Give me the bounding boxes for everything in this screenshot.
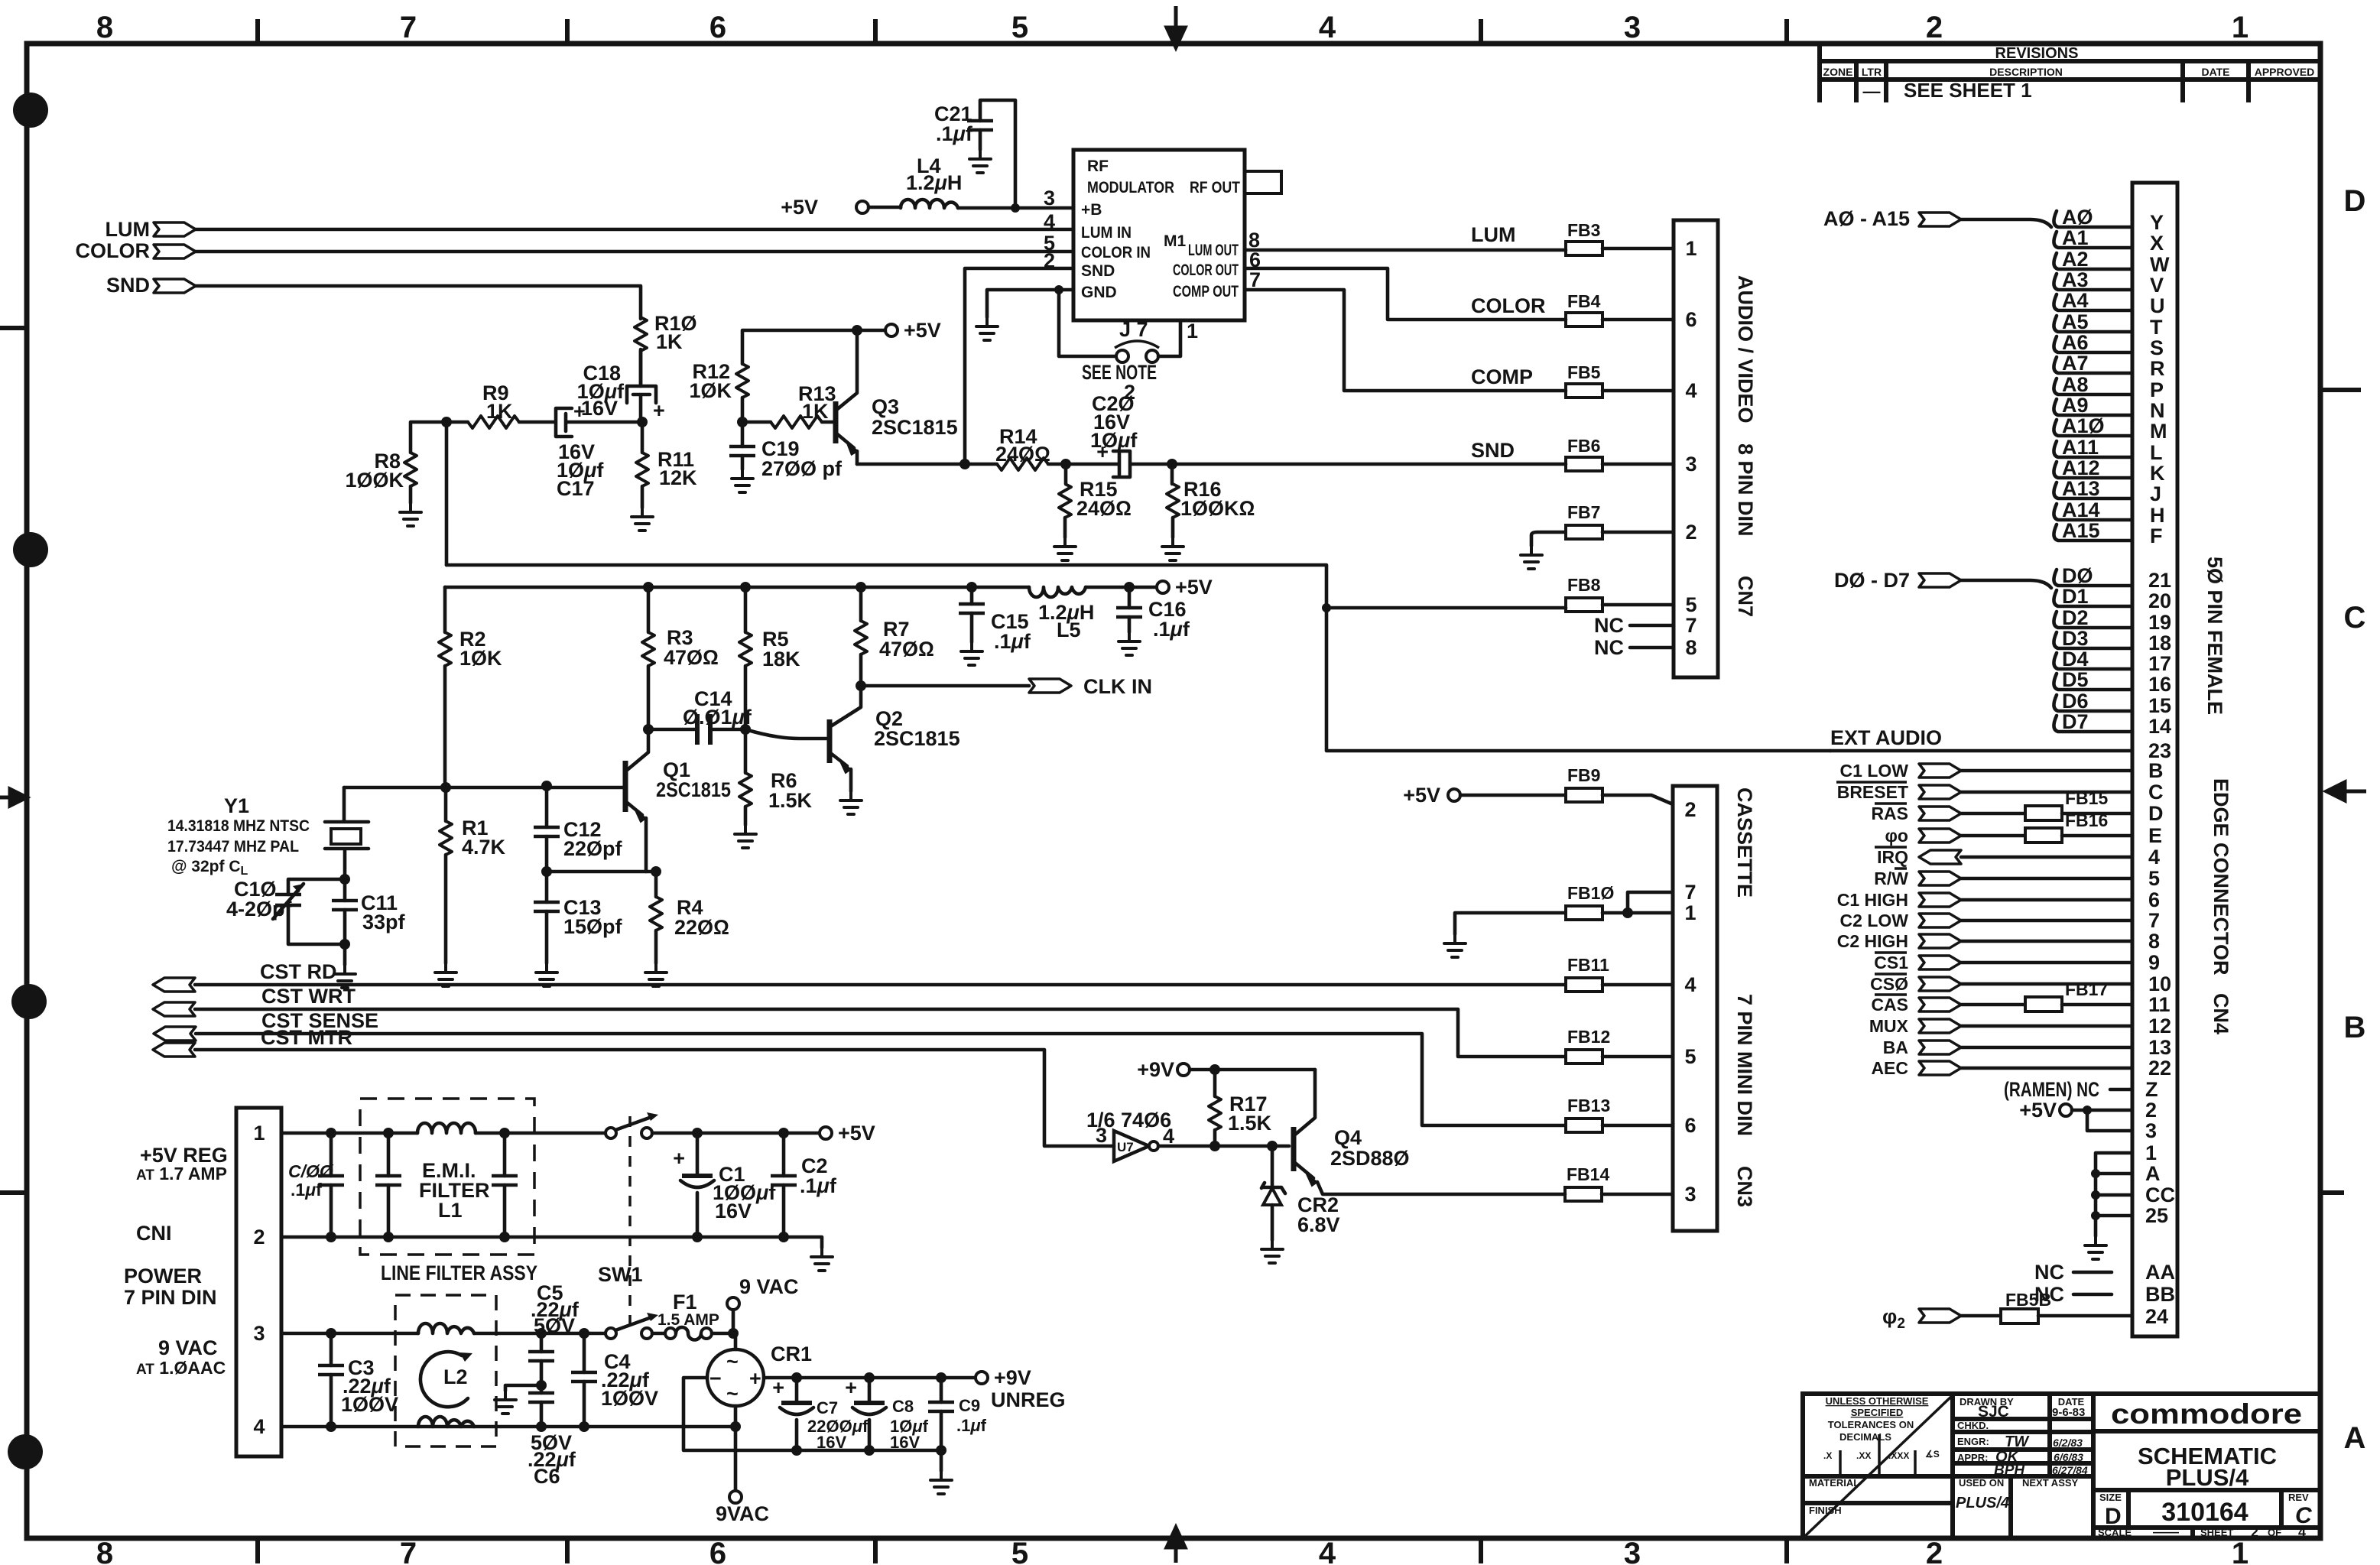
svg-text:3: 3 (1624, 11, 1641, 44)
svg-text:H: H (2150, 504, 2165, 527)
wire C14 node to Q2 base (745, 729, 830, 739)
zone arrow right B/C (2326, 782, 2366, 800)
svg-text:.XXX: .XXX (1888, 1450, 1909, 1461)
wire bridge DC minus to bottom rail (683, 1378, 941, 1450)
title block (1803, 1394, 2320, 1538)
svg-text:C8: C8 (892, 1397, 914, 1416)
zone arrow bottom center (1167, 1528, 1185, 1563)
svg-text:CN7: CN7 (1734, 576, 1757, 617)
zone tick top 7/6 (565, 21, 570, 44)
inductor L4 1.2uH (869, 154, 1073, 213)
net AEC flag to CN4 pin 22 (1871, 1057, 2171, 1080)
svg-text:4: 4 (1319, 11, 1336, 44)
diagonal in tolerance box (1804, 1395, 1953, 1537)
svg-text:D: D (2148, 802, 2164, 825)
svg-text:R: R (2150, 357, 2165, 380)
RF modulator M1 box (1073, 150, 1245, 320)
svg-text:6: 6 (1685, 308, 1697, 331)
ground through FB10 to CN3 pins 7,1 (1444, 881, 1697, 957)
svg-text:FB5: FB5 (1567, 362, 1601, 382)
svg-text:SIZE: SIZE (2099, 1492, 2122, 1503)
svg-text:REVISIONS: REVISIONS (1995, 45, 2079, 62)
resistor R16 100K (1162, 464, 1255, 560)
svg-text:DØ - D7: DØ - D7 (1834, 569, 1910, 592)
ferrite bead FB12 to CN3 pin 5 (1566, 1027, 1697, 1068)
wire CST WRT to FB12 (195, 1009, 1566, 1057)
svg-text:A11: A11 (2062, 436, 2099, 459)
svg-text:COLOR: COLOR (1471, 294, 1546, 317)
svg-text:C9: C9 (959, 1396, 980, 1415)
svg-text:FB11: FB11 (1567, 955, 1609, 975)
svg-text:18K: 18K (762, 648, 800, 670)
svg-text:3: 3 (2145, 1119, 2157, 1142)
svg-text:M1: M1 (1164, 232, 1186, 250)
svg-text:A15: A15 (2062, 519, 2100, 542)
svg-text:310164: 310164 (2161, 1498, 2248, 1527)
net banner A14 pin H (2054, 498, 2164, 527)
wire CN1 pin 3 line (281, 1332, 606, 1336)
svg-text:N: N (2150, 399, 2165, 422)
svg-text:FB8: FB8 (1567, 575, 1601, 595)
ground below C9 (930, 1450, 952, 1494)
note SEE NOTE 2 (1082, 361, 1157, 404)
svg-text:4-2Øpf: 4-2Øpf (226, 898, 293, 920)
capacitor C4 .22uf 100V (571, 1328, 658, 1427)
wire LUM OUT to FB3 (1245, 248, 1566, 252)
svg-text:24ØΩ: 24ØΩ (1076, 497, 1132, 520)
net (RAMEN) NC pin Z (2004, 1078, 2158, 1101)
svg-text:D6: D6 (2062, 690, 2089, 713)
svg-text:4: 4 (253, 1415, 265, 1438)
net banner A11 pin L (2054, 436, 2162, 464)
svg-text:+5V: +5V (1403, 784, 1440, 807)
+5V rail for Q1/Q2 stage (445, 586, 1163, 589)
wire CST RD to FB11 (195, 983, 1566, 987)
svg-text:SND: SND (1471, 439, 1515, 462)
resistor R5 18K (739, 582, 800, 729)
svg-text:AA: AA (2145, 1261, 2175, 1284)
svg-text:L5: L5 (1057, 619, 1081, 641)
junction C10/C11 bottom (339, 939, 350, 950)
zone tick top 3/2 (1479, 21, 1483, 44)
net banner D0 pin 21 (2054, 564, 2171, 592)
svg-text:CHKD.: CHKD. (1957, 1420, 1989, 1431)
svg-text:2: 2 (2145, 1099, 2157, 1122)
svg-text:6/27/84: 6/27/84 (2052, 1464, 2088, 1476)
capacitor C8 10uf 16V (845, 1372, 928, 1456)
9VAC terminal bottom (716, 1406, 769, 1525)
junction Q1 collector node (643, 724, 654, 735)
output flag CST WRT (153, 985, 356, 1016)
svg-text:1ØØV: 1ØØV (341, 1393, 398, 1416)
resistor R4 220ohm (645, 866, 729, 986)
ground below crystal network (334, 944, 356, 988)
net banner A13 pin J (2054, 477, 2161, 505)
resistor R15 240ohm (1054, 464, 1132, 560)
junction R12/R13/C19 node (737, 417, 748, 427)
resistor R1 4.7K (435, 787, 506, 986)
capacitor C18 10uf 16V (577, 349, 665, 422)
label +5V REG at 1.7 AMP (136, 1144, 228, 1183)
svg-text:9VAC: 9VAC (716, 1502, 769, 1525)
svg-text:7 PIN MINI DIN: 7 PIN MINI DIN (1733, 994, 1756, 1136)
svg-text:FB17: FB17 (2065, 979, 2108, 999)
svg-text:47ØΩ: 47ØΩ (664, 646, 719, 669)
net banner D1 pin 20 (2054, 585, 2171, 612)
svg-text:16V: 16V (581, 397, 618, 420)
wire bus D0-D7 to banner stack (1961, 580, 2051, 588)
wire COLOR OUT to FB4 (1245, 268, 1566, 320)
capacitor C100 .1uf (288, 1133, 344, 1237)
svg-text:S: S (2150, 336, 2164, 359)
net banner D5 pin 16 (2054, 668, 2171, 696)
svg-text:6: 6 (2148, 888, 2160, 911)
line filter dashed box L2 (395, 1295, 496, 1446)
ferrite bead FB4 on COLOR line to CN7 pin 6 (1471, 291, 1697, 331)
svg-text:LUM IN: LUM IN (1081, 224, 1132, 242)
svg-text:6/6/83: 6/6/83 (2054, 1451, 2083, 1463)
capacitor C9 .1uf (928, 1372, 987, 1456)
resistor R12 10K (689, 330, 857, 422)
svg-text:BPH: BPH (1994, 1463, 2025, 1479)
resistor R2 10K (439, 587, 502, 787)
ferrite bead FB8 to CN7 pin 5 (1566, 575, 1697, 616)
svg-text:R/W: R/W (1874, 869, 1908, 888)
svg-text:~: ~ (726, 1382, 739, 1405)
connector CN7 8-pin DIN box (1674, 220, 1718, 677)
svg-text:(RAMEN) NC: (RAMEN) NC (2004, 1078, 2099, 1101)
svg-text:AØ - A15: AØ - A15 (1823, 207, 1910, 230)
svg-text:A12: A12 (2062, 456, 2100, 479)
svg-text:M: M (2150, 420, 2167, 443)
svg-text:24ØΩ: 24ØΩ (995, 443, 1050, 466)
net CS1 flag to CN4 pin 9 (1874, 951, 2160, 974)
svg-text:SJC: SJC (1978, 1403, 2009, 1421)
wire CN1 pin 2 line (281, 1237, 822, 1248)
svg-text:10: 10 (2148, 972, 2171, 995)
output flag CST SENSE (154, 1009, 378, 1041)
output flag CST RD (153, 960, 337, 992)
svg-text:CASSETTE: CASSETTE (1733, 787, 1756, 898)
svg-text:IRQ: IRQ (1877, 847, 1908, 867)
svg-text:GND: GND (1081, 284, 1117, 301)
inductor L2 bottom coil (418, 1417, 474, 1427)
switch SW1 section B (606, 1313, 658, 1339)
svg-text:A1: A1 (2062, 226, 2089, 249)
net banner A15 pin F (2054, 519, 2162, 547)
svg-text:12: 12 (2148, 1015, 2171, 1037)
svg-text:BA: BA (1883, 1037, 1908, 1057)
svg-text:LUM: LUM (106, 218, 150, 241)
svg-text:5ØV: 5ØV (534, 1314, 575, 1337)
svg-text:W: W (2150, 253, 2170, 276)
svg-text:2SD88Ø: 2SD88Ø (1330, 1147, 1410, 1170)
svg-text:3: 3 (1624, 1537, 1641, 1565)
svg-text:6.8V: 6.8V (1297, 1213, 1340, 1236)
junction crystal/C10/C11 (339, 874, 350, 885)
wire audio rail branch to FB8 (1326, 606, 1566, 610)
svg-text:C2 LOW: C2 LOW (1840, 911, 1909, 930)
zone tick bottom 3/2 (1479, 1538, 1483, 1561)
svg-text:6/2/83: 6/2/83 (2053, 1437, 2083, 1449)
svg-text:CAS: CAS (1871, 995, 1908, 1015)
svg-text:13: 13 (2148, 1036, 2171, 1059)
svg-text:FB3: FB3 (1567, 220, 1600, 240)
svg-text:CNI: CNI (136, 1222, 172, 1245)
resistor R7 470ohm (855, 582, 934, 686)
transistor Q4 2SD880 (1294, 1070, 1410, 1186)
svg-text:4: 4 (2148, 846, 2160, 869)
svg-text:TW: TW (2005, 1434, 2030, 1450)
svg-text:L: L (2150, 441, 2163, 464)
svg-text:4.7K: 4.7K (462, 836, 506, 859)
wire CST MTR to 7406 input (195, 1050, 1114, 1146)
input flag LUM (106, 218, 196, 241)
resistor R11 12K (632, 422, 697, 531)
capacitor EMI right (492, 1128, 518, 1237)
svg-text:11: 11 (2148, 993, 2171, 1016)
svg-text:REV: REV (2288, 1492, 2309, 1503)
svg-text:L1: L1 (438, 1199, 463, 1222)
9VAC terminal top (727, 1275, 799, 1339)
svg-text:A1Ø: A1Ø (2062, 414, 2105, 437)
svg-text:EXT AUDIO: EXT AUDIO (1830, 726, 1942, 749)
svg-text:J 7: J 7 (1119, 318, 1148, 341)
+9V terminal (1137, 1058, 1315, 1081)
net EXT AUDIO to pin 23 (1830, 726, 2171, 762)
svg-text:PLUS/4: PLUS/4 (1956, 1495, 2009, 1511)
svg-text:1Øμf: 1Øμf (1090, 429, 1138, 452)
svg-text:7: 7 (400, 11, 417, 44)
+9V UNREG terminal (976, 1366, 1066, 1411)
svg-text:SCALE: SCALE (2098, 1527, 2132, 1538)
capacitor EMI left (375, 1133, 401, 1237)
net RAS flag to CN4 pin D (1871, 788, 2163, 825)
svg-text:U: U (2150, 294, 2165, 317)
svg-text:APPR:: APPR: (1957, 1452, 1988, 1463)
svg-text:RF OUT: RF OUT (1190, 179, 1240, 196)
capacitor C5 .22uf 50V (528, 1281, 580, 1385)
net MUX flag to CN4 pin 12 (1869, 1015, 2171, 1037)
svg-text:12K: 12K (659, 466, 697, 489)
svg-text:Y1: Y1 (224, 794, 249, 817)
capacitor C19 2700pf (729, 422, 843, 492)
NC CN7 pin 7 (1594, 614, 1697, 637)
svg-text:1.5K: 1.5K (1228, 1112, 1272, 1135)
svg-text:FB13: FB13 (1567, 1096, 1610, 1115)
wire LUM input to RF modulator pin 4 (196, 228, 1073, 232)
net banner A9 pin N (2054, 394, 2164, 422)
svg-text:X: X (2150, 232, 2164, 255)
svg-text:D4: D4 (2062, 648, 2089, 670)
svg-text:+9V: +9V (994, 1366, 1031, 1389)
svg-text:3: 3 (1684, 1183, 1696, 1206)
svg-text:UNREG: UNREG (991, 1388, 1066, 1411)
svg-text:1: 1 (1187, 320, 1198, 343)
svg-text:CLK IN: CLK IN (1083, 675, 1152, 698)
svg-text:Q4: Q4 (1334, 1126, 1362, 1149)
capacitor C11 33pf (332, 879, 406, 944)
svg-text:1: 1 (1684, 901, 1696, 924)
zone tick right B/A (2320, 1190, 2342, 1195)
resistor R10 1K (635, 312, 697, 386)
input flag COLOR (76, 239, 196, 262)
svg-text:+: + (673, 1147, 685, 1170)
capacitor C17 10uf 16V (series) (556, 400, 642, 500)
svg-text:5: 5 (1685, 593, 1697, 616)
wire CST SENSE to FB13 (196, 1034, 1566, 1125)
net banner A7 pin R (2054, 352, 2164, 380)
capacitor C3 .22uf 100V (318, 1333, 398, 1427)
svg-text:9 VAC: 9 VAC (739, 1275, 799, 1298)
svg-text:1K: 1K (656, 330, 683, 353)
svg-text:+: + (749, 1367, 761, 1390)
svg-text:BB: BB (2145, 1283, 2175, 1306)
zone arrow top center (1167, 6, 1185, 47)
svg-text:17.73447 MHZ PAL: 17.73447 MHZ PAL (167, 838, 299, 856)
svg-text:A3: A3 (2062, 268, 2089, 291)
svg-text:ZONE: ZONE (1823, 66, 1853, 78)
svg-text:@ 32pf CL: @ 32pf CL (171, 858, 248, 878)
jumper J7 (1115, 318, 1159, 362)
ferrite bead FB5 on COMP line to CN7 pin 4 (1471, 362, 1697, 402)
output flag CST MTR (153, 1026, 352, 1057)
svg-text:AUDIO / VIDEO: AUDIO / VIDEO (1734, 275, 1757, 424)
svg-text:Q3: Q3 (872, 395, 899, 418)
svg-text:EDGE CONNECTOR: EDGE CONNECTOR (2210, 778, 2232, 976)
svg-text:2: 2 (1684, 798, 1696, 821)
svg-text:+5V: +5V (1175, 576, 1213, 599)
svg-text:DESCRIPTION: DESCRIPTION (1989, 66, 2063, 78)
svg-text:COLOR OUT: COLOR OUT (1173, 261, 1239, 279)
+5V terminal to CN4 pins 2,3 (2019, 1099, 2157, 1142)
svg-text:FINISH: FINISH (1809, 1505, 1842, 1516)
svg-text:∡S: ∡S (1925, 1449, 1940, 1459)
svg-text:15: 15 (2148, 694, 2171, 717)
svg-text:16V: 16V (715, 1200, 752, 1222)
net C2 HIGH flag to CN4 pin 8 (1837, 930, 2160, 953)
svg-text:16V: 16V (817, 1433, 846, 1452)
svg-text:6: 6 (1684, 1114, 1696, 1137)
svg-text:NC: NC (1594, 614, 1624, 637)
resistor R3 470ohm (642, 582, 719, 729)
svg-text:C7: C7 (817, 1398, 838, 1417)
svg-text:+B: +B (1081, 201, 1102, 219)
net CS&#216; flag to CN4 pin 10 (1870, 972, 2171, 995)
svg-text:A: A (2344, 1421, 2366, 1455)
registration dot 4 (8, 1434, 43, 1469)
svg-text:14.31818 MHZ NTSC: 14.31818 MHZ NTSC (167, 817, 310, 835)
svg-text:.1μf: .1μf (291, 1180, 322, 1200)
svg-text:CST MTR: CST MTR (261, 1026, 352, 1049)
capacitor C12 220pf (534, 786, 623, 872)
svg-text:.XX: .XX (1856, 1450, 1871, 1461)
svg-text:D5: D5 (2062, 668, 2089, 691)
svg-text:16: 16 (2148, 673, 2171, 696)
capacitor C13 150pf (534, 872, 623, 986)
ground tap between C5 and C6 (495, 1380, 547, 1414)
svg-text:1ØØV: 1ØØV (601, 1387, 658, 1410)
connector CN1 power 7-pin DIN box (236, 1108, 281, 1456)
svg-text:LINE FILTER ASSY: LINE FILTER ASSY (381, 1261, 537, 1284)
input flag SND (106, 274, 196, 297)
wire Q4 emitter to FB14 (1317, 1182, 1565, 1194)
+5V through FB9 to CN3 pin 2 (1403, 765, 1696, 821)
svg-text:φo: φo (1885, 826, 1908, 846)
svg-text:1K: 1K (486, 400, 513, 423)
capacitor C2 .1uf (771, 1128, 837, 1242)
svg-text:+5V: +5V (781, 196, 818, 219)
svg-text:+: + (653, 399, 665, 422)
svg-text:A13: A13 (2062, 477, 2100, 500)
net PHI2 through FB5B to pin 24 (1882, 1290, 2168, 1332)
svg-text:+5V: +5V (838, 1122, 875, 1145)
svg-text:L2: L2 (443, 1365, 468, 1388)
svg-text:Y: Y (2150, 211, 2164, 234)
svg-text:B: B (2148, 759, 2164, 782)
svg-text:C: C (2148, 781, 2164, 804)
capacitor C1 100uf 16V (673, 1128, 776, 1242)
switch SW1 section A (606, 1112, 658, 1138)
svg-text:2SC1815: 2SC1815 (872, 416, 958, 439)
svg-text:5: 5 (2148, 867, 2160, 890)
label POWER 7 PIN DIN (124, 1265, 217, 1309)
svg-text:−: − (709, 1367, 722, 1390)
svg-text:A14: A14 (2062, 498, 2100, 521)
svg-text:COLOR IN: COLOR IN (1081, 244, 1151, 261)
svg-text:D3: D3 (2062, 627, 2089, 650)
svg-text:1: 1 (2232, 11, 2248, 44)
svg-text:A9: A9 (2062, 394, 2089, 417)
net IRQ flag to CN4 pin 4 (1875, 846, 2160, 869)
resistor R9 1K (446, 382, 554, 428)
ferrite bead FB3 on LUM line to CN7 pin 1 (1471, 220, 1697, 260)
crystal Y1 (167, 787, 369, 879)
ferrite bead FB6 on SND line to CN7 pin 3 (1471, 436, 1697, 476)
inverter U7 1/6 7406 (1086, 1109, 1174, 1161)
svg-text:D2: D2 (2062, 606, 2089, 629)
ferrite bead FB14 to CN3 pin 3 (1565, 1164, 1697, 1206)
svg-text:1.5 AMP: 1.5 AMP (658, 1311, 719, 1329)
svg-text:4: 4 (1044, 210, 1055, 233)
svg-text:DATE: DATE (2201, 66, 2229, 78)
net C2 LOW flag to CN4 pin 7 (1840, 909, 2160, 932)
svg-text:+5V: +5V (904, 319, 941, 342)
svg-text:CSØ: CSØ (1870, 974, 1908, 994)
svg-text:1ØK: 1ØK (689, 379, 732, 402)
svg-text:C1 HIGH: C1 HIGH (1837, 890, 1908, 910)
junction C14/R5/R6 node (740, 724, 751, 735)
svg-text:CN3: CN3 (1733, 1166, 1756, 1207)
resistor R17 1.5K (1209, 1064, 1272, 1151)
svg-text:6: 6 (709, 1537, 726, 1565)
ganged switch dashed link (628, 1116, 632, 1328)
svg-text:2SC1815: 2SC1815 (656, 778, 731, 801)
svg-text:~: ~ (726, 1350, 739, 1373)
svg-text:F1: F1 (673, 1291, 697, 1313)
wire bus A0-A15 to banner stack (1961, 219, 2051, 227)
junction C13/R4 node (541, 866, 552, 877)
svg-text:V: V (2150, 274, 2164, 297)
ferrite bead FB13 to CN3 pin 6 (1566, 1096, 1697, 1137)
resistor R13 1K (742, 382, 836, 428)
capacitor C7 2200uf 16V (772, 1372, 869, 1456)
svg-text:2: 2 (1926, 1537, 1943, 1565)
junction C18 node (637, 417, 648, 427)
svg-text:RAS: RAS (1871, 804, 1908, 823)
svg-text:4: 4 (1163, 1125, 1174, 1148)
ground end of pin 2 line (811, 1248, 833, 1271)
